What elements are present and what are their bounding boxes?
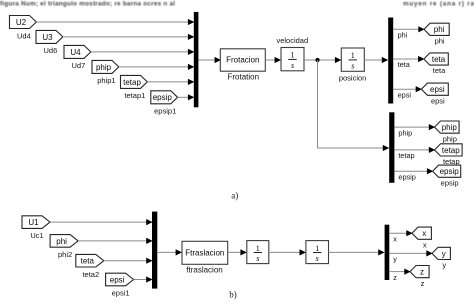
- from tag phip (phip1): [92, 60, 119, 85]
- goto tag phi: [424, 23, 449, 45]
- caption a): [231, 190, 238, 200]
- svg-text:1: 1: [291, 51, 295, 60]
- svg-text:epsip: epsip: [398, 172, 415, 181]
- wire integrator 1 to integrator 2 (b): [269, 249, 306, 255]
- svg-text:tetap1: tetap1: [124, 91, 145, 100]
- svg-text:phip: phip: [442, 123, 458, 132]
- svg-text:epsi: epsi: [431, 96, 445, 105]
- wire Demux1 teta output: [393, 56, 424, 62]
- svg-text:epsi: epsi: [398, 90, 412, 99]
- svg-text:s: s: [291, 61, 294, 70]
- from tag tetap (tetap1): [121, 75, 148, 100]
- svg-text:epsip: epsip: [440, 167, 460, 176]
- port label tetap: [398, 151, 414, 160]
- port label teta: [398, 60, 411, 69]
- svg-text:s: s: [256, 254, 259, 263]
- svg-text:b): b): [229, 289, 237, 299]
- port label phip: [398, 128, 412, 137]
- wire epsip to Mux: [178, 94, 195, 100]
- integrator 2 (1/s) diagram b: [306, 241, 329, 264]
- wire Mux to Ftraslacion: [157, 249, 182, 255]
- integrator velocidad (1/s) U: velocidad: [281, 48, 304, 71]
- node branch point after velocidad: [315, 58, 319, 62]
- svg-text:phip1: phip1: [97, 76, 115, 85]
- svg-text:phi2: phi2: [58, 250, 72, 259]
- wire branch node to Demux2: [318, 60, 390, 151]
- port label x: [393, 234, 397, 243]
- wire epsi to Mux (b): [134, 276, 153, 282]
- svg-text:1: 1: [256, 244, 260, 253]
- svg-text:phi: phi: [398, 31, 408, 40]
- svg-text:velocidad: velocidad: [276, 36, 308, 45]
- svg-text:U2: U2: [16, 18, 27, 27]
- mux Mux (diagram a): [194, 12, 199, 107]
- svg-text:U4: U4: [70, 48, 81, 57]
- wire posicion to Demux1: [364, 57, 388, 63]
- svg-text:Ud7: Ud7: [72, 61, 86, 70]
- svg-text:x: x: [423, 240, 427, 249]
- wire velocidad to posicion: [304, 57, 341, 63]
- svg-text:teta2: teta2: [82, 270, 99, 279]
- from tag U1 (Uc1): [22, 216, 50, 240]
- svg-text:z: z: [421, 279, 425, 288]
- wire Demux1 phi output: [393, 26, 425, 32]
- label velocidad: [276, 36, 308, 45]
- from tag epsip (epsip1): [151, 91, 178, 116]
- svg-text:tetap: tetap: [123, 78, 141, 87]
- svg-text:z: z: [393, 273, 397, 282]
- wire Frotacion to integrator velocidad: [265, 57, 281, 63]
- port label y: [393, 255, 397, 264]
- svg-text:y: y: [442, 261, 446, 270]
- wire Demux2 tetap output: [394, 147, 435, 153]
- caption b): [229, 289, 237, 299]
- from tag epsi (epsi1): [106, 273, 134, 297]
- block Ftraslacion (subsystem): [182, 241, 228, 274]
- goto tag phip: [435, 121, 460, 143]
- caption text top-right (cropped page text): [403, 0, 474, 7]
- svg-text:posicion: posicion: [339, 73, 367, 82]
- port label epsip: [398, 172, 415, 181]
- svg-text:teta: teta: [433, 66, 446, 75]
- svg-text:phip: phip: [443, 134, 457, 143]
- svg-text:tetap: tetap: [442, 146, 460, 155]
- wire U3 to Mux: [63, 34, 195, 40]
- label posicion: [339, 73, 367, 82]
- svg-text:U3: U3: [42, 33, 53, 42]
- svg-text:Ftraslacion: Ftraslacion: [185, 249, 224, 258]
- mux Mux (diagram b): [152, 212, 157, 289]
- svg-text:phi: phi: [435, 37, 445, 46]
- wire U4 to Mux: [91, 49, 195, 55]
- svg-text:phip: phip: [398, 128, 412, 137]
- goto tag epsi: [421, 83, 448, 105]
- from tag teta (teta2): [76, 254, 104, 278]
- goto tag tetap: [435, 144, 463, 166]
- svg-text:1: 1: [315, 244, 319, 253]
- svg-text:epsip: epsip: [153, 93, 173, 102]
- svg-text:1: 1: [351, 51, 355, 60]
- svg-text:Frotacion: Frotacion: [226, 56, 259, 65]
- svg-text:epsip: epsip: [441, 178, 459, 187]
- svg-text:U1: U1: [28, 218, 39, 227]
- svg-text:Ud4: Ud4: [17, 31, 31, 40]
- goto tag epsip: [433, 165, 461, 187]
- svg-text:tetap: tetap: [398, 151, 414, 160]
- wire Ftraslacion to integrator 1 (b): [228, 249, 247, 255]
- integrator 1 (1/s) diagram b: [247, 241, 269, 264]
- svg-text:figura Num; el triangulo mostr: figura Num; el triangulo mostrado; re ba…: [0, 0, 175, 7]
- svg-text:epsi1: epsi1: [112, 289, 130, 298]
- goto tag z: [410, 266, 429, 288]
- svg-text:epsip1: epsip1: [154, 107, 176, 116]
- goto tag x: [412, 227, 431, 249]
- caption text top-left (cropped page text): [0, 0, 175, 7]
- svg-text:phip: phip: [96, 63, 112, 72]
- svg-text:teta: teta: [398, 60, 411, 69]
- svg-text:phi: phi: [434, 25, 445, 34]
- demux Demux1 (diagram a upper): [388, 18, 393, 104]
- wire phip to Mux: [119, 64, 195, 70]
- svg-text:ftraslacion: ftraslacion: [186, 265, 222, 274]
- svg-text:y: y: [442, 249, 446, 258]
- svg-text:Frotation: Frotation: [228, 73, 260, 82]
- wire U1 to Mux (b): [50, 219, 153, 225]
- svg-text:y: y: [393, 255, 397, 264]
- svg-text:epsi: epsi: [110, 275, 125, 284]
- svg-text:s: s: [316, 254, 319, 263]
- port label phi: [398, 31, 408, 40]
- wire Demux2 epsip output: [394, 168, 433, 174]
- svg-text:x: x: [422, 229, 426, 238]
- svg-text:phi: phi: [56, 237, 67, 246]
- demux Demux2 (diagram a lower): [389, 112, 394, 183]
- svg-text:epsi: epsi: [430, 85, 445, 94]
- svg-text:x: x: [393, 234, 397, 243]
- wire U2 to Mux: [36, 19, 194, 25]
- wire Demux y output: [389, 250, 432, 256]
- goto tag y: [432, 247, 450, 269]
- from tag U2 (Ud4): [10, 16, 37, 41]
- port label z: [393, 273, 397, 282]
- wire Demux x output: [389, 230, 412, 236]
- port label epsi: [398, 90, 412, 99]
- svg-text:teta: teta: [81, 257, 95, 266]
- wire integrator 2 to Demux (b): [329, 249, 385, 255]
- demux Demux (diagram b): [385, 225, 390, 280]
- svg-text:teta: teta: [432, 55, 446, 64]
- from tag phi (phi2): [50, 235, 78, 259]
- wire tetap to Mux: [147, 79, 194, 85]
- from tag U4 (Ud7): [64, 45, 91, 70]
- goto tag teta: [424, 53, 449, 75]
- wire teta to Mux (b): [104, 258, 153, 264]
- wire Demux z output: [389, 269, 410, 275]
- from tag U3 (Ud6): [36, 30, 63, 55]
- wire Demux1 epsi output: [393, 86, 422, 92]
- svg-text:z: z: [420, 268, 424, 277]
- svg-text:a): a): [231, 190, 238, 200]
- svg-text:muyen re (ana r) ra: muyen re (ana r) ra: [403, 0, 474, 7]
- integrator posicion (1/s): [341, 48, 364, 71]
- wire Demux2 phip output: [394, 124, 435, 130]
- block Frotacion (subsystem): [220, 49, 265, 82]
- wire phi to Mux (b): [78, 238, 153, 244]
- svg-text:s: s: [351, 62, 354, 71]
- svg-text:Ud6: Ud6: [44, 46, 58, 55]
- wire Mux to Frotacion: [198, 57, 221, 63]
- svg-text:Uc1: Uc1: [30, 231, 43, 240]
